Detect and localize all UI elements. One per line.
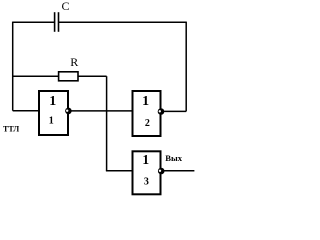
resistor R1 — [59, 72, 78, 81]
wire resistor branch — [13, 75, 107, 77]
wire top left (gate1 input node to capacitor) — [13, 21, 55, 23]
svg-text:3: 3 — [144, 176, 149, 187]
svg-text:1: 1 — [142, 152, 149, 167]
svg-text:1: 1 — [49, 116, 54, 127]
svg-text:C: C — [61, 0, 69, 13]
inverter gate DD1.3 box — [133, 151, 161, 194]
svg-text:1: 1 — [142, 94, 149, 109]
svg-text:1: 1 — [49, 94, 56, 109]
svg-text:Вых: Вых — [165, 153, 182, 163]
svg-text:ТТЛ: ТТЛ — [3, 125, 19, 134]
wire top right (capacitor to gate2 output node) — [59, 21, 186, 23]
wire mid vertical (R to gate3 input) — [106, 76, 108, 171]
wire left vertical — [12, 22, 14, 111]
inverter gate DD1.1 box — [39, 91, 68, 135]
wire gate1 input — [13, 110, 39, 112]
wire gate3 input horizontal — [106, 170, 133, 172]
wire gate3 output — [162, 170, 195, 172]
inversion bubble gate1 output — [65, 108, 72, 115]
wire gate2 output — [161, 110, 187, 112]
capacitor C1 plates — [55, 12, 59, 32]
svg-text:R: R — [70, 55, 78, 69]
wire gate1 output to gate2 input — [68, 110, 132, 112]
inversion bubble gate3 output — [158, 168, 165, 175]
inversion bubble gate2 output — [158, 108, 165, 115]
svg-text:2: 2 — [145, 118, 150, 129]
wire right vertical — [185, 22, 187, 112]
inverter gate DD1.2 box — [133, 91, 161, 136]
